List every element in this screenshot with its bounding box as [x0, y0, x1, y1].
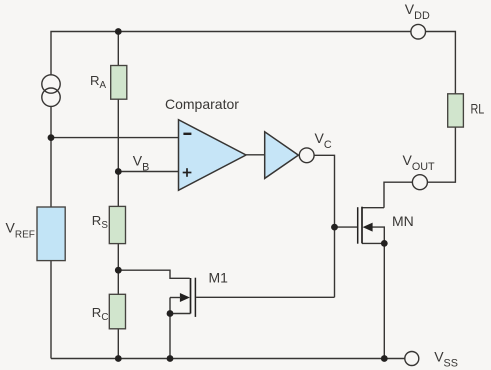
terminal VSS — [405, 352, 419, 366]
wire M1 source lead down to bottom rail — [169, 298, 171, 359]
svg-text:Comparator: Comparator — [165, 96, 239, 112]
node MN gate junction — [331, 224, 338, 231]
wire VC circle to MN gate branch — [314, 155, 334, 297]
resistor RS — [109, 206, 125, 243]
wire MN source down to bottom rail — [383, 243, 385, 358]
wire M1 arrow lead — [170, 297, 181, 299]
wire MN source arrow lead — [368, 227, 384, 243]
transistor MN — [358, 207, 373, 244]
current source I1 — [42, 75, 60, 107]
wire M1 source bottom lead — [170, 313, 191, 315]
node MN source-bulk junction — [381, 240, 388, 247]
wire RS bottom to RC top — [117, 244, 119, 295]
svg-text:VB: VB — [133, 153, 150, 174]
resistor RC — [109, 294, 125, 329]
wire comparator output to buffer — [246, 154, 265, 156]
svg-text:RC: RC — [92, 305, 109, 323]
svg-text:VREF: VREF — [6, 220, 35, 241]
wire top rail right of VDD — [425, 32, 455, 94]
buffer U2 — [265, 132, 299, 179]
node VC terminal circle — [299, 148, 314, 163]
wire bottom rail — [51, 358, 405, 360]
wire top rail — [51, 32, 411, 76]
node M1 source bottom rail junction — [167, 355, 174, 362]
wire RS-RC node to M1 drain — [118, 270, 189, 278]
svg-text:VC: VC — [315, 130, 332, 151]
wire MN drain lead — [362, 207, 384, 209]
wire right rail RL bottom to VOUT corner — [428, 127, 456, 182]
node top rail / RA junction — [115, 28, 122, 35]
svg-text:VDD: VDD — [405, 1, 430, 22]
node VB junction — [115, 168, 122, 175]
resistor RA — [111, 66, 127, 100]
wire mid rail top to RA — [117, 32, 119, 66]
wire RC bottom to bottom rail — [117, 329, 119, 359]
svg-text:VOUT: VOUT — [403, 152, 436, 173]
node A current source / VREF / comparator minus — [48, 134, 55, 141]
svg-text:RS: RS — [92, 213, 109, 231]
wire comparator minus input — [51, 137, 179, 139]
wire MN source bottom lead — [362, 242, 384, 244]
node MN source bottom rail junction — [381, 355, 388, 362]
plus sign comparator non-inverting input — [183, 168, 192, 177]
wire RA bottom to RS top — [117, 99, 119, 206]
terminal VOUT — [412, 175, 427, 190]
terminal VDD — [411, 24, 426, 39]
wire VREF bottom to ground corner — [50, 261, 52, 359]
svg-text:VSS: VSS — [434, 349, 458, 370]
wire MN gate stub — [335, 226, 358, 228]
voltage reference VREF — [37, 207, 65, 261]
wire M1 gate to branch — [196, 296, 334, 298]
node RS-RC junction — [115, 267, 122, 274]
node RC bottom rail junction — [115, 355, 122, 362]
svg-text:RL: RL — [471, 102, 485, 117]
svg-text:MN: MN — [392, 213, 414, 229]
op-amp comparator U1 — [179, 120, 247, 191]
resistor RL — [448, 94, 464, 127]
node M1 source-bulk junction — [167, 310, 174, 317]
minus sign comparator inverting input — [183, 133, 191, 135]
wire current source to VREF via node A — [50, 106, 52, 207]
svg-text:RA: RA — [90, 73, 107, 91]
wire comparator plus input from node VB — [118, 171, 178, 173]
transistor M1 — [180, 278, 196, 317]
svg-text:M1: M1 — [209, 270, 229, 286]
wire VOUT left to MN drain — [384, 182, 412, 208]
